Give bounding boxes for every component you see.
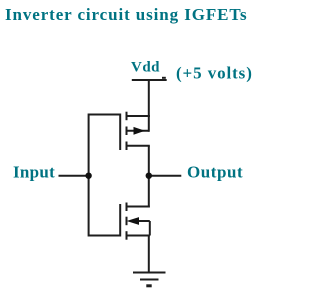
wire output line	[149, 175, 182, 177]
wire input line	[59, 175, 89, 177]
wire Vdd to Q1 source	[148, 80, 150, 117]
ground bar 1	[133, 272, 166, 274]
junction dot output node	[146, 173, 152, 179]
ground bar 3	[146, 284, 151, 287]
wire Q1 drain to output node	[148, 146, 150, 176]
transistor Q2 substrate arrow (points left, n-channel)	[127, 217, 139, 225]
wire gate bus (left vertical)	[88, 114, 90, 237]
svg-text:Inverter circuit using IGFETs: Inverter circuit using IGFETs	[5, 5, 248, 24]
wire Q2 source to ground	[148, 236, 150, 273]
transistor Q1 drain stub	[127, 115, 150, 117]
transistor Q2 channel tick substrate	[126, 217, 128, 226]
transistor Q2 drain stub	[127, 206, 150, 208]
transistor Q1 channel tick drain	[126, 112, 128, 121]
transistor Q1 gate bar	[119, 114, 121, 151]
transistor Q1 substrate rail	[148, 115, 150, 132]
transistor Q1 substrate stub	[127, 130, 149, 132]
svg-text:Output: Output	[187, 163, 243, 182]
power rail Vdd bar end tick	[162, 77, 166, 79]
transistor Q2 (n-channel IGFET) gate lead	[89, 235, 121, 237]
transistor Q2 channel tick drain	[126, 203, 128, 212]
svg-text:(+5 volts): (+5 volts)	[176, 64, 253, 83]
transistor Q1 substrate arrow (points right, p-channel)	[134, 127, 146, 135]
ground bar 2	[140, 279, 159, 281]
transistor Q2 substrate stub	[130, 220, 150, 222]
transistor Q1 channel tick source	[126, 142, 128, 151]
transistor Q2 channel tick source	[126, 231, 128, 240]
transistor Q1 (p-channel IGFET) gate lead	[89, 114, 121, 116]
svg-text:Input: Input	[13, 163, 55, 182]
wire output node to Q2 drain	[148, 176, 150, 208]
transistor Q1 channel tick substrate	[126, 127, 128, 136]
transistor Q2 substrate-to-source rail	[149, 221, 151, 236]
junction dot input node	[85, 173, 91, 179]
power rail Vdd bar	[132, 79, 167, 81]
svg-text:Vdd: Vdd	[131, 60, 160, 76]
transistor Q2 source stub	[127, 235, 150, 237]
transistor Q2 gate bar	[119, 204, 121, 237]
transistor Q1 source stub	[127, 145, 150, 147]
